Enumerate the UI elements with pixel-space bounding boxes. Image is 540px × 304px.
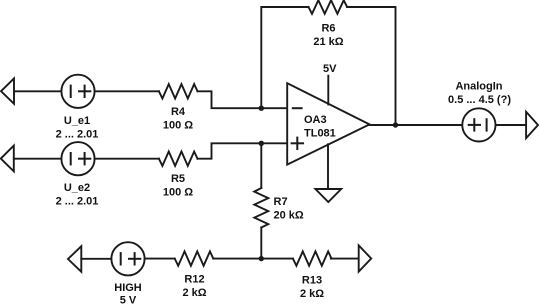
port arrow left (row 2) [1, 146, 14, 172]
svg-text:TL081: TL081 [304, 128, 336, 140]
op-amp plus input symbol [292, 138, 303, 149]
wire R7 top [260, 143, 262, 188]
label R12 value [182, 274, 206, 299]
label U_e2 value [56, 182, 99, 207]
svg-text:R4: R4 [171, 106, 186, 118]
svg-text:2 ... 2.01: 2 ... 2.01 [56, 128, 99, 140]
resistor R5 [159, 152, 198, 166]
wire U_e1 to R4 [95, 90, 159, 92]
svg-text:0.5 ... 4.5 (?): 0.5 ... 4.5 (?) [448, 94, 511, 106]
svg-text:100 Ω: 100 Ω [163, 186, 193, 198]
ground [315, 189, 341, 202]
wire AnalogIn to output port [496, 124, 527, 126]
svg-text:20 kΩ: 20 kΩ [274, 209, 304, 221]
node junction rail/R7 [259, 256, 264, 261]
wire op-amp output [370, 124, 463, 126]
wire U_e2 to R5 [95, 158, 159, 160]
wire R13 to output port [331, 258, 359, 260]
label OA3 TL081 [304, 114, 336, 140]
port arrow left (HIGH) [68, 246, 81, 272]
label AnalogIn [448, 81, 511, 107]
svg-text:R6: R6 [321, 23, 335, 35]
resistor R6 [309, 0, 348, 14]
svg-text:U_e1: U_e1 [64, 115, 90, 127]
svg-text:U_e2: U_e2 [64, 182, 90, 194]
wire R4 to op-amp inverting input (jog down) [198, 91, 288, 108]
node junction output/feedback [393, 122, 398, 127]
label R13 value [300, 275, 324, 300]
wire feedback right vertical [347, 7, 395, 125]
voltage source HIGH [111, 242, 144, 275]
op-amp minus input symbol [293, 107, 302, 109]
svg-text:HIGH: HIGH [114, 282, 142, 294]
wire R12 to R13 [213, 258, 293, 260]
svg-text:R5: R5 [171, 173, 185, 185]
wire op-amp bottom to ground [327, 144, 329, 189]
wire HIGH to R12 [145, 258, 175, 260]
meter source AnalogIn [462, 108, 495, 141]
op-amp OA3 triangle [287, 83, 369, 164]
wire arrow2 to U_e2 [14, 158, 62, 160]
svg-text:OA3: OA3 [304, 114, 327, 126]
resistor R4 [159, 84, 198, 98]
voltage source U_e2 [61, 142, 94, 175]
svg-text:2 kΩ: 2 kΩ [182, 287, 206, 299]
wire arrow1 to U_e1 [14, 90, 61, 92]
port arrow right (output) [526, 112, 538, 138]
label R5 value [163, 173, 193, 198]
label R6 value [313, 23, 343, 48]
node junction R7/non-inverting input [259, 141, 264, 146]
svg-text:2 ... 2.01: 2 ... 2.01 [56, 195, 99, 207]
resistor R13 [293, 251, 332, 265]
wire feedback left vertical [261, 7, 308, 108]
svg-text:100 Ω: 100 Ω [163, 119, 193, 131]
port arrow left (row 1) [1, 78, 14, 103]
svg-text:R12: R12 [184, 274, 204, 286]
label U_e1 value [56, 115, 99, 140]
svg-text:5V: 5V [323, 63, 337, 75]
label 5V supply [323, 63, 337, 75]
svg-text:21 kΩ: 21 kΩ [313, 36, 343, 48]
wire R7 bottom to rail [260, 228, 262, 259]
resistor R7 [254, 188, 268, 228]
node junction feedback/inverting input [259, 106, 264, 111]
label R7 value [274, 196, 304, 221]
label R4 value [163, 106, 193, 131]
svg-text:5 V: 5 V [120, 294, 137, 304]
wire R5 to op-amp non-inverting input (jog up) [198, 143, 288, 158]
svg-text:R13: R13 [302, 275, 322, 287]
svg-text:R7: R7 [274, 196, 288, 208]
voltage source U_e1 [61, 75, 94, 108]
svg-text:AnalogIn: AnalogIn [455, 81, 502, 93]
resistor R12 [175, 251, 214, 265]
wire 5V to op-amp top [327, 76, 329, 105]
svg-text:2 kΩ: 2 kΩ [300, 288, 324, 300]
port arrow right (R13 out) [359, 245, 372, 271]
wire arrow3 to HIGH [81, 258, 111, 260]
label HIGH 5 V [114, 282, 142, 304]
